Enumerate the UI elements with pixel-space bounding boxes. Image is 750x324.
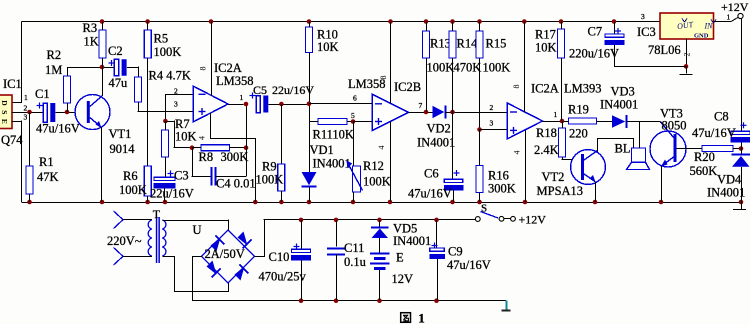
wire R7 to C3 <box>165 157 167 177</box>
transistor VT1 9014 <box>75 95 110 130</box>
svg-text:C8: C8 <box>714 110 729 124</box>
wire feedback from pin2 node to R8/C4 left <box>165 121 192 149</box>
wire +12V feed down right edge <box>741 19 743 132</box>
ground symbol at right end of ground rail <box>733 202 746 210</box>
wire left border: top rail to IC1 pin 1 <box>11 22 22 104</box>
label C5 <box>253 83 267 97</box>
wire C7 bottom leg <box>614 45 616 66</box>
wire R5 to R6 bias line <box>147 58 149 166</box>
wire C7 top leg <box>614 22 616 35</box>
svg-text:220u/16V: 220u/16V <box>569 47 619 61</box>
caption figure 1 (Chinese) <box>401 311 425 324</box>
svg-text:R4 4.7K: R4 4.7K <box>149 69 191 83</box>
svg-text:R12: R12 <box>363 159 384 173</box>
svg-text:R9: R9 <box>262 160 277 174</box>
value 10K of R17 <box>535 41 557 55</box>
wire VD4 to ground rail <box>741 167 743 202</box>
wire IC1 pin 2 to C1 <box>12 112 44 114</box>
svg-text:1K: 1K <box>84 35 99 49</box>
wire IC2A pin3 input <box>148 111 193 113</box>
svg-text:1: 1 <box>240 93 244 102</box>
svg-text:0.1u: 0.1u <box>344 255 367 269</box>
svg-text:3: 3 <box>24 113 28 122</box>
svg-text:+12V: +12V <box>721 0 749 14</box>
label C8 <box>714 110 729 124</box>
svg-text:IN4001: IN4001 <box>393 234 431 248</box>
pin 3 label LM393 <box>490 119 494 128</box>
svg-text:2A/50V: 2A/50V <box>205 247 245 261</box>
op-amp IC2A LM358 triangle <box>193 86 228 122</box>
svg-text:IC3: IC3 <box>637 25 656 39</box>
svg-text:2: 2 <box>683 53 692 57</box>
wire R15 bottom leg <box>479 58 481 130</box>
label R12 <box>363 159 384 173</box>
wire IC2A pin4 to ground <box>210 113 256 202</box>
switch S contact circles <box>475 216 515 221</box>
pin 4 label LM393 <box>513 151 522 155</box>
wire bridge positive to DC rail <box>255 219 478 256</box>
pin 1 label LM393 <box>554 110 558 119</box>
wire IC3 GND pin down <box>686 39 688 66</box>
wire C9 bottom leg <box>437 259 439 301</box>
svg-text:560K: 560K <box>690 164 718 178</box>
svg-text:VD2: VD2 <box>427 122 451 136</box>
pin 8 label IC2A <box>199 67 208 71</box>
wire VD5 to battery <box>379 238 381 253</box>
wire IC1 pin 3 to left ground border <box>12 121 23 203</box>
label +12V top right <box>721 0 749 14</box>
value 470u/25v of C10 <box>259 270 307 284</box>
pin 3 label IC3 <box>641 12 645 21</box>
junction dots on DC+ rail <box>299 218 439 223</box>
value 47u/16V of C8 <box>692 126 736 140</box>
diode VD1 IN4001 <box>302 172 317 187</box>
label VD2 <box>427 122 451 136</box>
pin 7 label IC2B <box>419 101 423 110</box>
value IN4001 of VD2 <box>417 136 455 150</box>
wire primary bottom lead <box>123 256 147 258</box>
svg-text:2: 2 <box>24 104 28 113</box>
wire R12 to ground <box>353 192 355 202</box>
svg-text:100K: 100K <box>256 173 284 187</box>
speaker BL <box>627 148 650 170</box>
svg-text:3: 3 <box>174 100 178 109</box>
svg-text:8050: 8050 <box>662 119 687 133</box>
value 47u/16V of C1 <box>36 122 80 136</box>
junction dot IC2A output node <box>244 102 249 107</box>
label C2 <box>108 44 123 58</box>
value 100K of R13 <box>427 61 455 75</box>
resistor R7 <box>162 130 169 157</box>
label LM358 second <box>348 77 386 91</box>
potentiometer R12 <box>346 161 362 192</box>
wire IC2B pin8 power <box>390 22 392 104</box>
bridge rectifier U diamond <box>202 230 255 283</box>
label BL <box>615 142 631 156</box>
resistor R4 <box>135 77 142 102</box>
label R5 <box>154 32 169 46</box>
label IC3 <box>637 25 656 39</box>
wire R13 top leg <box>426 22 428 32</box>
junction dot R13 bottom node <box>424 110 429 115</box>
transformer T secondary winding <box>162 220 166 256</box>
svg-text:BL: BL <box>615 142 631 156</box>
junction dots on ground rail <box>27 200 743 205</box>
svg-text:IC1: IC1 <box>3 77 22 91</box>
svg-text:8: 8 <box>199 67 208 71</box>
label IC2A of LM393 <box>531 82 559 96</box>
wire R14 top leg <box>452 22 454 32</box>
svg-text:IN4001: IN4001 <box>417 136 455 150</box>
value 1K of R3 <box>84 35 99 49</box>
wire C9 top leg <box>436 220 438 248</box>
resistor R14 <box>449 31 456 58</box>
label R19 <box>568 103 589 117</box>
transformer T primary winding <box>147 220 152 257</box>
pin 8 label IC2B <box>379 76 388 80</box>
wire R17 bottom leg <box>561 58 563 121</box>
wire primary top lead <box>123 219 147 221</box>
value 100K of R15 <box>483 61 511 75</box>
label 220V~ <box>107 234 142 248</box>
svg-text:S: S <box>0 110 9 114</box>
svg-text:300K: 300K <box>221 150 249 164</box>
capacitor C1 electrolytic <box>37 103 56 123</box>
svg-text:VD1: VD1 <box>310 143 334 157</box>
svg-text:VD4: VD4 <box>717 173 742 187</box>
battery E 12V <box>370 254 390 269</box>
IC1 sensor box Q74 <box>0 95 12 129</box>
svg-text:R19: R19 <box>568 103 589 117</box>
svg-text:6: 6 <box>353 94 357 103</box>
regulator IC3 78L06 box <box>660 13 716 40</box>
wire C4 right branch to output node <box>216 104 247 177</box>
wire VT1 emitter to ground <box>101 127 103 202</box>
bridge diode bottom-left <box>207 261 221 278</box>
resistor R8 <box>201 145 230 151</box>
resistor R20 <box>702 146 733 152</box>
label R18 <box>536 126 557 140</box>
svg-text:VT2: VT2 <box>542 170 565 184</box>
pin 1 label IC2A <box>240 93 244 102</box>
pin 6 label IC2B <box>353 94 357 103</box>
svg-text:IN4001: IN4001 <box>313 157 351 171</box>
svg-text:100K: 100K <box>363 175 391 189</box>
wire R17 top leg <box>561 22 563 30</box>
wire R9 line <box>281 104 283 164</box>
pin 2 label IC3 <box>683 53 692 57</box>
junction dot R14/C6 node <box>450 110 455 115</box>
label VT2 <box>542 170 565 184</box>
wire R5 top leg <box>147 22 149 31</box>
svg-text:10K: 10K <box>175 130 197 144</box>
label R13 <box>430 37 451 51</box>
bridge diode top-left <box>211 236 225 252</box>
resistor R9 <box>278 164 285 191</box>
label VT1 <box>109 127 132 141</box>
svg-text:LM358: LM358 <box>216 74 254 88</box>
wire C2 to R4 <box>127 67 139 78</box>
svg-text:12V: 12V <box>392 272 414 286</box>
value 22u/16V of C5 <box>272 83 314 97</box>
svg-text:2: 2 <box>174 87 178 96</box>
resistor R11 <box>318 119 347 125</box>
label LM358 first <box>216 74 254 88</box>
label R3 <box>83 21 98 35</box>
wire C6 to ground <box>453 190 455 202</box>
svg-text:R1110K: R1110K <box>313 128 354 142</box>
capacitor C11 <box>327 249 345 255</box>
svg-text:9014: 9014 <box>110 142 136 156</box>
label R17 <box>535 28 556 42</box>
diode VD2 IN4001 <box>433 106 446 119</box>
value IN4001 of VD1 <box>313 157 351 171</box>
value 220 of R19 <box>569 127 588 141</box>
label +12V at switch <box>519 213 547 227</box>
value IN4001 of VD5 <box>393 234 431 248</box>
wire bridge negative to supply ground rail <box>192 256 506 301</box>
node +12V terminal circle <box>738 13 743 18</box>
value 12V of battery <box>392 272 414 286</box>
wire R8 left leg <box>192 147 201 149</box>
value 300K of R8 <box>221 150 249 164</box>
label R7 <box>175 117 190 131</box>
label LM393 <box>564 82 602 96</box>
svg-text:3: 3 <box>490 119 494 128</box>
junction dot pin5 node <box>351 119 356 124</box>
svg-text:47u/16V: 47u/16V <box>36 122 80 136</box>
wire IC2B pin6 input <box>309 103 372 105</box>
value 560K of R20 <box>690 164 718 178</box>
svg-text:C6: C6 <box>424 167 439 181</box>
pin 1 label IC1 <box>24 93 28 102</box>
label VD5 <box>393 222 417 236</box>
svg-text:MPSA13: MPSA13 <box>537 184 584 198</box>
svg-text:10K: 10K <box>535 41 557 55</box>
svg-text:4: 4 <box>198 136 207 140</box>
svg-text:C2: C2 <box>108 44 123 58</box>
junction dot R8/C4 left node <box>190 145 195 150</box>
wire LM393 pin8 power <box>524 22 526 113</box>
svg-text:100K: 100K <box>119 183 147 197</box>
value 100K of R5 <box>154 45 182 59</box>
ground symbol below IC3 <box>680 66 693 74</box>
pin 2 label IC1 <box>24 104 28 113</box>
wire R3 bottom leg <box>102 58 104 67</box>
wire IC2B pin4 to ground <box>390 122 392 203</box>
value 22u/16V of C3 <box>150 187 194 201</box>
value 47u of C2 <box>109 76 129 90</box>
wire C5 to R9 node to IC2B pin6 <box>269 104 310 106</box>
junction dot R9 top node <box>279 102 284 107</box>
wire VT3 base to R20 <box>677 148 703 150</box>
svg-text:E: E <box>0 119 9 124</box>
capacitor C7 electrolytic <box>605 28 625 45</box>
svg-text:1: 1 <box>24 93 28 102</box>
junction dot pin6 node <box>307 102 312 107</box>
pin 8 label LM393 <box>512 85 521 89</box>
label C4 0.01 <box>216 177 256 191</box>
resistor R6 <box>144 166 151 196</box>
svg-text:470K: 470K <box>454 61 482 75</box>
wire VT3 emitter to ground <box>661 166 663 202</box>
junction dot C1/R2/base node <box>65 110 70 115</box>
wire between switch terminals <box>504 218 511 220</box>
svg-text:IN: IN <box>704 22 714 31</box>
wire C3 to ground <box>164 188 166 202</box>
resistor R18 <box>559 128 566 157</box>
bridge diode bottom-right <box>235 265 249 281</box>
svg-text:8: 8 <box>379 76 388 80</box>
wire R6 to ground <box>147 196 149 202</box>
svg-text:C10: C10 <box>269 250 290 264</box>
junction dot IC3 ground node <box>684 64 689 69</box>
svg-text:R15: R15 <box>486 37 507 51</box>
capacitor C2 electrolytic <box>109 59 127 76</box>
value 1M of R2 <box>45 63 62 77</box>
transistor VT3 8050 <box>650 122 686 167</box>
wire VD3 to VT3 collector node <box>627 121 661 123</box>
pin 3 label IC1 <box>24 113 28 122</box>
svg-text:R17: R17 <box>535 28 556 42</box>
wire R8 right leg <box>230 147 247 149</box>
svg-text:R8: R8 <box>199 150 214 164</box>
resistor R10 <box>306 27 313 53</box>
wire LM393 pin4 to ground <box>525 131 527 202</box>
wire R2/R3/C2/collector node <box>67 67 115 69</box>
svg-text:R14: R14 <box>457 37 479 51</box>
wire IC2A pin8 power <box>211 22 213 96</box>
svg-text:C3: C3 <box>174 169 189 183</box>
resistor R19 <box>569 118 597 124</box>
label R8 <box>199 150 214 164</box>
wire VD1 to ground <box>309 188 311 203</box>
svg-text:1M: 1M <box>45 63 62 77</box>
ground rail (main bottom rail) <box>22 202 742 204</box>
label E <box>396 251 404 265</box>
resistor R1 <box>26 166 33 194</box>
svg-text:IN4001: IN4001 <box>600 98 638 112</box>
wire R3 top leg <box>102 22 104 31</box>
value 10K of R10 <box>317 40 339 54</box>
svg-text:470u/25v: 470u/25v <box>259 270 307 284</box>
wire BL right terminal up to VD3 node <box>639 122 641 149</box>
wire secondary bottom to bridge bottom <box>162 256 229 292</box>
value 9014 of VT1 <box>110 142 136 156</box>
pin 2 label LM393 <box>490 103 494 112</box>
svg-text:Q74: Q74 <box>1 133 23 147</box>
svg-text:IC2A: IC2A <box>214 61 242 75</box>
wire IC2A pin2 input <box>165 94 193 121</box>
resistor R13 <box>423 31 430 58</box>
label R14 <box>457 37 479 51</box>
svg-text:C9: C9 <box>448 245 463 259</box>
wire R7 top leg <box>165 121 167 130</box>
wire R2 top leg <box>67 67 69 76</box>
svg-text:100K: 100K <box>483 61 511 75</box>
capacitor C10 electrolytic <box>291 244 311 261</box>
svg-text:IN4001: IN4001 <box>707 186 745 200</box>
label C10 <box>269 250 290 264</box>
value 47u/16V of C6 <box>408 187 452 201</box>
wire secondary top to bridge top <box>162 220 228 231</box>
capacitor C5 electrolytic <box>250 93 269 113</box>
wire VT2 emitter to ground <box>595 182 597 203</box>
label C11 <box>344 241 364 255</box>
wire C11 bottom leg <box>336 254 338 301</box>
wire R10 top leg <box>309 22 311 28</box>
svg-text:U: U <box>193 223 202 237</box>
label IC2B <box>394 80 421 94</box>
wire C4 left branch <box>192 148 211 177</box>
svg-text:GND: GND <box>694 33 709 40</box>
label C1 <box>35 87 50 101</box>
transformer T core <box>156 217 160 263</box>
value 10K of R7 <box>175 130 197 144</box>
junction dot R3 bottom node <box>100 65 105 70</box>
svg-text:47K: 47K <box>37 170 59 184</box>
value 300K of R16 <box>488 182 516 196</box>
op-amp IC2A LM393 triangle <box>507 103 543 139</box>
wire R11 right leg <box>347 121 353 123</box>
svg-text:C1: C1 <box>35 87 50 101</box>
resistor R15 <box>476 31 483 58</box>
value 470K of R14 <box>454 61 482 75</box>
svg-text:C4 0.01: C4 0.01 <box>216 177 256 191</box>
wire R4 bottom leg to pin3 line <box>138 102 148 112</box>
wire battery to supply ground <box>379 270 381 301</box>
resistor R17 <box>558 29 565 58</box>
svg-text:5: 5 <box>351 111 355 120</box>
label VD1 <box>310 143 334 157</box>
svg-text:47u/16V: 47u/16V <box>408 187 452 201</box>
wire VT1 collector up to node <box>102 67 104 96</box>
value 8050 of VT3 <box>662 119 687 133</box>
capacitor C8 electrolytic <box>731 122 750 142</box>
junction dot IC1 pin 2 node <box>27 110 32 115</box>
wire R20 right leg <box>733 148 741 150</box>
resistor R3 <box>99 30 106 58</box>
svg-text:C11: C11 <box>344 241 364 255</box>
wire pin5 node down to R12 <box>353 122 355 167</box>
wire C8 to R20 node <box>741 142 743 154</box>
junction dot R20/C8/VD4 node <box>739 146 744 151</box>
svg-text:4: 4 <box>377 146 386 150</box>
svg-text:47u/16V: 47u/16V <box>692 126 736 140</box>
value 47u/16V of C9 <box>447 258 491 272</box>
resistor R5 <box>144 30 151 58</box>
capacitor C9 electrolytic <box>429 243 445 260</box>
svg-text:S: S <box>481 203 487 215</box>
capacitor C4 <box>212 167 216 186</box>
junction dots on supply ground rail <box>299 298 439 303</box>
wire IC2A output pin1 <box>228 104 244 106</box>
wire R18 top leg <box>562 121 564 128</box>
svg-text:220: 220 <box>569 127 588 141</box>
svg-text:220V~: 220V~ <box>107 234 142 248</box>
wire IC2B pin5 input <box>353 121 372 123</box>
svg-text:300K: 300K <box>488 182 516 196</box>
svg-text:C7: C7 <box>588 25 603 39</box>
svg-text:7: 7 <box>419 101 423 110</box>
svg-text:22u/16V: 22u/16V <box>150 187 194 201</box>
resistor R16 <box>476 166 483 193</box>
svg-text:R2: R2 <box>47 48 62 62</box>
label R9 <box>262 160 277 174</box>
label R6 <box>123 169 138 183</box>
wire R11 left leg <box>309 121 318 123</box>
transformer T primary terminal arrows <box>114 211 124 265</box>
